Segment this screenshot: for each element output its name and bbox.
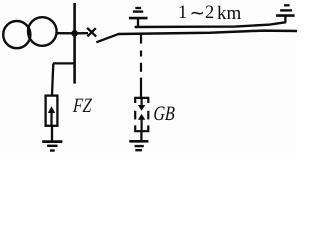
wire overhead shield wire 1-2km (upper line) — [135, 22, 286, 27]
transformer T (two-winding, circle 1) — [3, 21, 30, 48]
bus (vertical busbar) — [73, 3, 76, 84]
ground (left end of shield wire, inverted) — [129, 8, 148, 27]
ground (right end of shield wire, inverted) — [276, 5, 295, 22]
wire bus tap to arrester FZ (horizontal) — [53, 62, 76, 64]
wire transformer to bus — [56, 32, 75, 34]
wire bus to switch — [75, 32, 88, 34]
ground (below GB) — [129, 141, 148, 150]
arrester FZ (box with up arrow) — [46, 96, 58, 126]
ground (below FZ) — [42, 142, 62, 151]
fuse / breaker cross mark — [87, 28, 96, 37]
protective gap GB (dashed box with facing arrows) — [135, 98, 148, 131]
wire GB to ground — [140, 131, 142, 141]
wire FZ to ground — [51, 126, 53, 141]
disconnect switch blade (open) — [96, 34, 119, 43]
transformer T (two-winding, circle 2) — [28, 17, 57, 46]
label: FZ (valve arrester) — [72, 95, 92, 118]
wire down to arrester FZ (vertical) — [52, 63, 53, 95]
node junction dot on bus — [71, 30, 78, 37]
wire dashed drop from line to gap GB — [140, 34, 142, 97]
wire overhead phase conductor (lower line) — [118, 31, 297, 34]
label: 1 ~ 2 km distance annotation — [178, 3, 187, 24]
label: GB (protective gap) — [152, 103, 175, 126]
